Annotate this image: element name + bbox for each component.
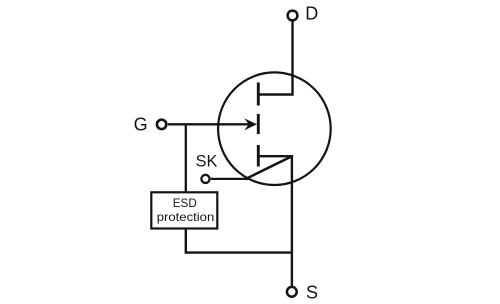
terminal G bbox=[157, 120, 166, 129]
svg-text:ESD: ESD bbox=[173, 197, 197, 210]
wire gate to ESD box bbox=[185, 124, 187, 192]
wire source lead bbox=[258, 156, 292, 287]
transistor M1 drain contact bar bbox=[257, 83, 260, 106]
transistor M1 envelope bbox=[218, 72, 331, 185]
terminal D bbox=[288, 11, 298, 21]
svg-text:D: D bbox=[305, 4, 318, 24]
svg-text:SK: SK bbox=[196, 153, 218, 171]
wire bulk diagonal bbox=[246, 156, 292, 179]
wire gate bbox=[168, 123, 250, 125]
transistor M1 gate contact bar bbox=[257, 114, 260, 134]
wire ESD box to source bbox=[186, 229, 292, 253]
svg-text:G: G bbox=[134, 115, 148, 135]
transistor M1 source contact bar bbox=[257, 145, 260, 167]
svg-text:S: S bbox=[306, 283, 318, 303]
transistor M1 gate arrow bbox=[244, 118, 257, 130]
svg-text:protection: protection bbox=[157, 211, 215, 224]
terminal SK bbox=[201, 175, 209, 183]
terminal S bbox=[287, 287, 297, 297]
wire SK bbox=[211, 178, 249, 180]
wire drain lead bbox=[258, 21, 292, 95]
ESD protection box U1 bbox=[151, 192, 217, 228]
